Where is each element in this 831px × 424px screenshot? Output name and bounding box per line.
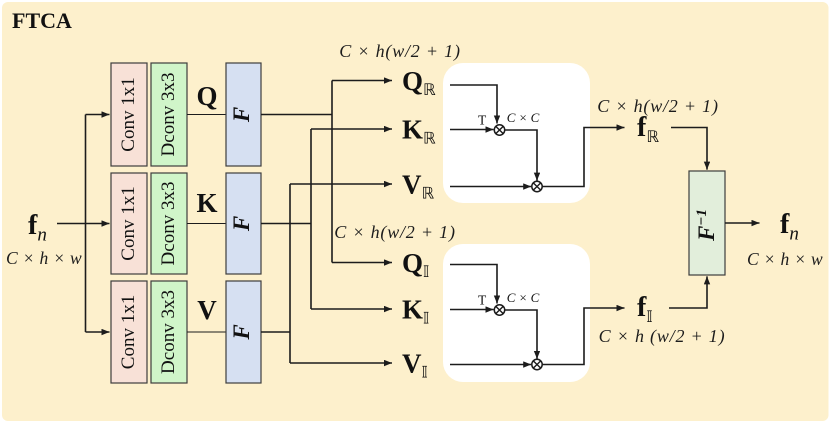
svg-text:Dconv 3x3: Dconv 3x3 [158,182,179,266]
wire input arrow to Conv row2 [57,223,110,225]
svg-text:C × h(w/2 + 1): C × h(w/2 + 1) [339,41,461,62]
wire arrow KR [311,128,392,130]
FFT box row2 [226,173,261,274]
svg-text:F: F [229,107,254,123]
svg-text:Conv 1x1: Conv 1x1 [118,77,139,151]
wire dconv to F row1 [187,114,226,116]
svg-text:C × h(w/2 + 1): C × h(w/2 + 1) [334,222,456,243]
wire branch arrow to Conv row3 [86,331,110,333]
wire F1 output [261,114,332,116]
wire dconv to F row3 [187,331,226,333]
wire K vertical [310,129,312,309]
svg-text:FTCA: FTCA [12,8,72,33]
wire branch vertical [85,115,87,333]
wire arrow VR [290,183,392,185]
attention block imag [443,244,590,382]
wire fR to IFFT [671,128,707,170]
dconv3x3 row3 [151,281,187,383]
wire block real output to fR [542,128,624,187]
dconv3x3 row1 [151,63,187,166]
wire node1 to node2 real [505,130,537,181]
wire fI to IFFT [669,276,707,308]
wire VR into block [450,186,531,188]
wire arrow VI [290,362,392,364]
svg-text:K: K [196,188,217,218]
svg-text:T: T [478,113,487,128]
FFT box row3 [226,281,261,383]
attention block real [443,63,590,203]
wire F2 output [261,223,311,225]
multiply node 2 real [532,181,542,191]
wire block imag output to fI [542,308,624,365]
wire KR into block [450,129,494,131]
wire V vertical [289,184,291,363]
multiply node 1 imag [494,305,504,315]
svg-text:Q: Q [196,81,217,111]
svg-text:C × C: C × C [507,290,540,305]
conv1x1 row3 [111,281,147,383]
wire arrow QR [332,80,392,82]
conv1x1 row1 [111,63,147,166]
svg-text:C × h × w: C × h × w [6,248,82,268]
wire arrow QI [332,262,392,264]
svg-text:Conv 1x1: Conv 1x1 [118,186,139,260]
wire Q vertical [331,81,333,263]
svg-text:Conv 1x1: Conv 1x1 [118,295,139,369]
wire QI into block [450,265,497,304]
svg-text:F: F [229,324,254,340]
multiply node 2 imag [532,359,542,369]
wire F3 output [261,331,290,333]
IFFT box [689,171,725,275]
wire branch arrow to Conv row1 [86,114,110,116]
dconv3x3 row2 [151,173,187,274]
svg-text:Dconv 3x3: Dconv 3x3 [158,73,179,157]
svg-text:T: T [478,293,487,308]
svg-text:V: V [197,295,217,325]
svg-text:C × C: C × C [507,110,540,125]
svg-text:C × h(w/2 + 1): C × h(w/2 + 1) [597,96,719,117]
wire IFFT output [725,222,760,224]
svg-text:Dconv 3x3: Dconv 3x3 [158,290,179,374]
wire node1 to node2 imag [505,310,537,359]
svg-text:C × h (w/2 + 1): C × h (w/2 + 1) [599,326,726,347]
wire KI into block [450,309,494,311]
multiply node 1 real [494,125,504,135]
wire arrow KI [311,308,392,310]
wire dconv to F row2 [187,223,226,225]
conv1x1 row2 [111,173,147,274]
wire VI into block [450,364,531,366]
wire QR into block [450,85,497,124]
FFT box row1 [226,63,261,166]
svg-text:C × h × w: C × h × w [747,249,823,269]
svg-text:F: F [229,216,254,232]
